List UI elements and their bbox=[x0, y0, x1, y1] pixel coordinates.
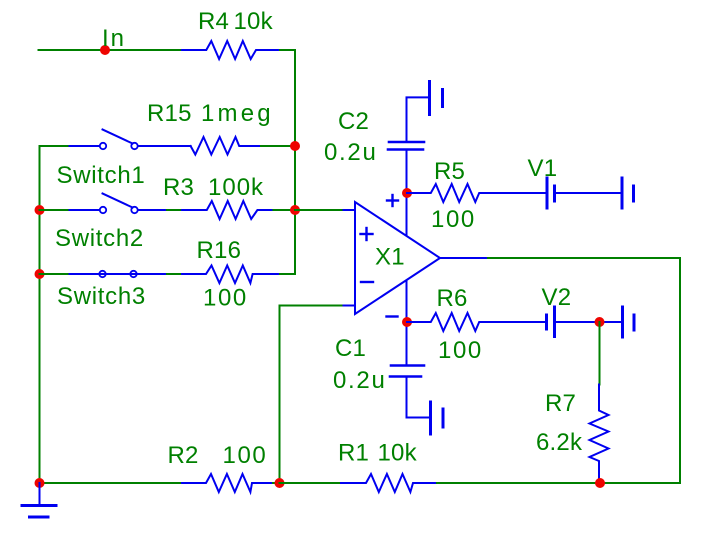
power rail op-amp bottom edge to C1 bbox=[406, 281, 408, 364]
capacitor C2 bbox=[388, 142, 424, 150]
svg-text:100: 100 bbox=[431, 206, 476, 233]
svg-text:R16: R16 bbox=[197, 237, 242, 264]
svg-text:6.2k: 6.2k bbox=[536, 429, 583, 456]
svg-text:R2: R2 bbox=[168, 442, 199, 469]
svg-text:R4: R4 bbox=[198, 8, 229, 35]
op-amp plus input mark bbox=[361, 228, 373, 240]
wire output stub bbox=[440, 257, 488, 259]
wire switch2 row left bbox=[40, 209, 70, 211]
resistor R16 bbox=[182, 266, 280, 284]
svg-text:In: In bbox=[102, 25, 126, 52]
wire plus input from node rail bbox=[295, 209, 342, 211]
ground V1 (short bar) bbox=[632, 186, 635, 201]
resistor R1 bbox=[341, 474, 437, 492]
ground V2 (short bar) bbox=[633, 315, 636, 330]
ground bottom left bbox=[22, 483, 56, 517]
node feedback dot bbox=[275, 478, 285, 488]
wire bottom row left bbox=[40, 482, 183, 484]
wire right rail bbox=[294, 50, 296, 274]
power rail above C2 bbox=[407, 97, 429, 140]
resistor R3 bbox=[182, 201, 273, 219]
node plus supply dot bbox=[402, 188, 412, 198]
switch Switch1 bbox=[70, 130, 191, 150]
battery V1 bbox=[547, 178, 621, 208]
wire R4 to right rail bbox=[280, 49, 295, 51]
op-amp X1 bbox=[355, 202, 440, 314]
svg-text:R5: R5 bbox=[434, 158, 465, 185]
svg-text:C1: C1 bbox=[335, 335, 366, 362]
wire R2 to feedback node bbox=[273, 482, 280, 484]
node In dot bbox=[100, 45, 110, 55]
power rail C2 to op-amp top edge bbox=[406, 151, 408, 235]
wire feedback rail bbox=[280, 306, 342, 484]
switch Switch2 bbox=[70, 194, 168, 214]
op-amp minus supply pin label bbox=[387, 315, 398, 317]
svg-text:Switch2: Switch2 bbox=[55, 225, 144, 252]
wire switch2 to R3 bbox=[167, 209, 182, 211]
svg-text:R1: R1 bbox=[338, 440, 369, 467]
node R3 right dot bbox=[290, 205, 300, 215]
svg-text:1meg: 1meg bbox=[201, 100, 274, 127]
svg-text:10k: 10k bbox=[378, 440, 418, 467]
capacitor C1 bbox=[390, 366, 424, 377]
svg-text:100k: 100k bbox=[208, 174, 264, 201]
svg-text:10k: 10k bbox=[234, 8, 274, 35]
svg-text:Switch1: Switch1 bbox=[57, 162, 146, 189]
wire V2 node down to R7 bbox=[599, 322, 601, 385]
svg-text:R6: R6 bbox=[437, 285, 468, 312]
svg-text:V1: V1 bbox=[528, 155, 558, 182]
wire switch3 to R16 bbox=[167, 273, 182, 275]
ground V1 (long bar) bbox=[621, 178, 624, 208]
resistor R2 bbox=[182, 474, 273, 492]
svg-text:R7: R7 bbox=[545, 390, 576, 417]
wire switch3 row left bbox=[40, 273, 70, 275]
resistor R7 bbox=[590, 385, 609, 480]
wire left rail bbox=[39, 146, 41, 483]
wire top input row bbox=[39, 49, 183, 51]
ground bottom C1 (short bar) bbox=[442, 409, 445, 427]
battery V2 bbox=[547, 307, 622, 337]
resistor R5 bbox=[407, 184, 546, 202]
node R7 bottom dot bbox=[595, 478, 605, 488]
svg-text:0.2u: 0.2u bbox=[324, 139, 378, 166]
node V2 dot bbox=[595, 317, 605, 327]
wire plus input stub bbox=[342, 209, 356, 211]
wire R3 to right rail bbox=[273, 209, 295, 211]
svg-text:Switch3: Switch3 bbox=[57, 283, 146, 310]
svg-text:100: 100 bbox=[223, 442, 268, 469]
power rail below C1 bbox=[407, 378, 430, 418]
ground bottom C1 (long bar) bbox=[429, 402, 432, 434]
node switch2 left dot bbox=[35, 205, 45, 215]
wire output to right rail bbox=[488, 258, 680, 483]
resistor R6 bbox=[407, 313, 546, 331]
resistor R4 bbox=[182, 41, 280, 59]
node minus supply dot bbox=[402, 317, 412, 327]
wire R1 to right rail bbox=[437, 482, 680, 484]
ground top (short bar) bbox=[441, 90, 444, 107]
svg-text:R3: R3 bbox=[163, 174, 194, 201]
ground top (long bar) bbox=[428, 82, 431, 115]
wire minus input stub bbox=[342, 305, 356, 307]
resistor R15 bbox=[191, 137, 261, 155]
svg-text:X1: X1 bbox=[375, 244, 405, 271]
wire switch1 row left bbox=[40, 145, 70, 147]
wire feedback node to R1 bbox=[280, 482, 342, 484]
node ground left dot bbox=[35, 478, 45, 488]
wire R15 to right rail bbox=[261, 145, 295, 147]
svg-text:R15: R15 bbox=[147, 100, 192, 127]
svg-text:0.2u: 0.2u bbox=[333, 367, 387, 394]
op-amp plus supply pin label bbox=[387, 195, 398, 206]
op-amp minus input mark bbox=[361, 281, 373, 283]
switch Switch3 closed bbox=[70, 271, 168, 277]
svg-text:C2: C2 bbox=[338, 108, 369, 135]
node switch3 left dot bbox=[35, 269, 45, 279]
ground V2 (long bar) bbox=[621, 307, 624, 337]
wire R16 to right rail corner bbox=[280, 273, 295, 275]
svg-text:100: 100 bbox=[438, 337, 483, 364]
svg-text:100: 100 bbox=[203, 285, 248, 312]
node R15 right dot bbox=[290, 141, 300, 151]
svg-text:V2: V2 bbox=[542, 284, 572, 311]
